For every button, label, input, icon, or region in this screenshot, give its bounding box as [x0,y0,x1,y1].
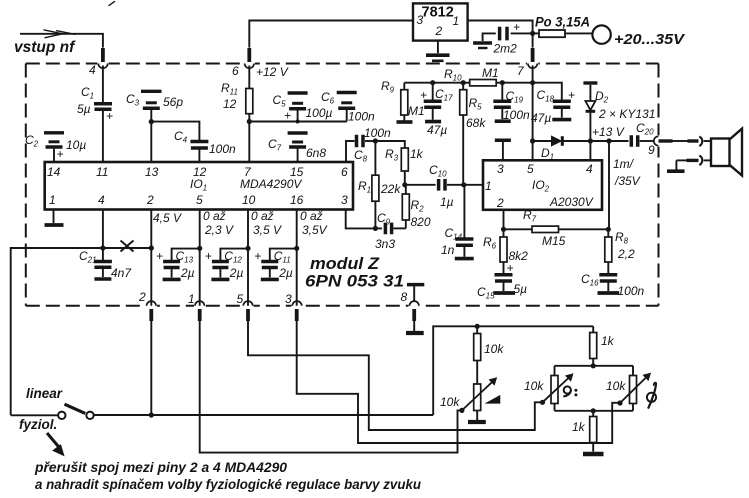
node D1 left [530,138,535,143]
label C14 1n [441,226,463,257]
label C21 4n7 [79,249,132,280]
resistor R8 [605,229,612,273]
node R11 bottom [247,119,252,124]
speaker lead thick segments [659,139,699,142]
svg-text:5: 5 [237,292,244,306]
potentiometer treble 10k [620,373,650,403]
voltage regulator 7812 box [413,3,468,40]
wire IC1 pin3 to C9 row [346,210,382,229]
module pin 3 bump [291,301,302,309]
module pin 5 bump [242,301,253,308]
svg-text:1k: 1k [601,334,615,348]
svg-text:4: 4 [586,162,593,176]
svg-text:22k: 22k [380,182,401,196]
svg-text:5µ: 5µ [77,102,91,116]
svg-text:R11: R11 [221,81,238,97]
svg-text:100n: 100n [348,110,375,124]
speaker wires to jacks [704,141,711,160]
fuse Po 3,15A [533,30,593,37]
capacitor C9 [385,223,405,235]
jack ground [667,160,685,171]
resistor R9 [401,83,408,121]
svg-text:C2: C2 [25,133,39,149]
C17 ground [425,120,441,124]
capacitor C18 [553,88,575,118]
svg-text:10k: 10k [484,342,504,356]
svg-text:+: + [507,261,514,275]
switch contact right [86,412,93,419]
wire IC2 pin4 stub [589,141,591,160]
volume pot ground [468,411,486,423]
capacitor C5 [284,93,308,123]
svg-text:3: 3 [497,162,504,176]
svg-text:+13 V: +13 V [592,125,625,139]
terminal circle +20..35V [592,25,610,43]
svg-text:13: 13 [145,165,159,179]
node C8 R1 junction [373,138,378,143]
svg-text:R8: R8 [615,230,629,246]
label R1 22k [358,179,401,196]
svg-text:5µ: 5µ [514,282,528,296]
node R5 C14 junction [461,182,466,187]
svg-text:9: 9 [648,143,655,157]
label C15 5u [477,282,527,301]
svg-text:C8: C8 [354,148,368,164]
svg-text:D1: D1 [541,146,554,162]
resistor R5 [460,83,467,185]
svg-text:R1: R1 [358,179,371,195]
svg-text:C6: C6 [321,90,335,106]
svg-text:2 × KY131: 2 × KY131 [598,107,655,121]
label C13 2u [176,249,195,280]
pin 7 thick mark [531,48,535,62]
svg-text:R9: R9 [381,79,395,95]
7812 ground [426,41,450,61]
svg-text:C12: C12 [224,249,242,265]
svg-text:100n: 100n [364,126,391,140]
node C13 tap [197,246,202,251]
jack plug top [699,137,702,146]
wire IC1 pin10 column [247,210,249,306]
resistor R10 horizontal [470,80,497,86]
label R7 M15 [523,208,566,248]
svg-text:10k: 10k [440,395,460,409]
svg-text:68k: 68k [466,116,486,130]
capacitor C4 [190,142,208,163]
wire output node to C20 [590,140,628,142]
svg-text:+: + [205,249,212,263]
svg-text:C21: C21 [79,249,97,265]
svg-text:C3: C3 [126,92,140,108]
svg-text:3: 3 [285,292,292,306]
label 1m/35V [613,157,641,188]
speaker horn [730,129,743,176]
node 1m tap [606,138,611,143]
switch contact left [58,412,65,419]
svg-text:C15: C15 [477,285,495,301]
capacitor C17 [420,83,442,120]
pin 6 thick mark [247,48,251,62]
capacitor C1 [94,66,113,163]
svg-text:5: 5 [527,162,534,176]
svg-text:1: 1 [49,193,56,207]
node supply junction [530,31,535,36]
C19 ground [495,119,511,123]
volume triangle mark [487,396,500,403]
resistor R11 [246,66,253,122]
wire C3 to C4 [151,122,199,140]
pin 8 thick mark [412,309,416,321]
svg-text:3,5V: 3,5V [302,223,328,237]
wire C8 node to R3 [375,141,404,148]
svg-text:2,3 V: 2,3 V [204,223,234,237]
svg-text:C14: C14 [445,226,463,242]
C18 ground [552,118,571,122]
label C1 5u [77,85,94,116]
label C3 56p [126,92,183,109]
label 0 az 2,3V pin5 [203,209,234,237]
label 0 az 3,5V pin16 [300,209,328,237]
capacitor C12 [205,249,248,278]
svg-text:/35V: /35V [614,174,641,188]
wire IC2 pin2 down [503,210,505,230]
label R9 M1 [381,79,425,118]
svg-text:56p: 56p [163,95,183,109]
wire R7 to R8 node [559,228,609,230]
svg-text:100n: 100n [618,284,645,298]
module pin 9 bump [654,135,661,146]
label R8 2,2 [615,230,635,261]
speaker box [711,139,730,167]
svg-text:820: 820 [411,215,431,229]
svg-text:4: 4 [98,193,105,207]
node C19 top [500,80,505,85]
svg-text:modul Z: modul Z [310,255,380,273]
label R6 8k2 [483,235,528,263]
capacitor C20 [631,135,654,147]
wire IC1 pin5 column [199,210,201,306]
resistor 10k fixed [474,326,481,360]
svg-text:C19: C19 [506,89,524,105]
svg-text:1m/: 1m/ [613,157,635,171]
svg-text:2: 2 [138,290,146,304]
pin 2 thick mark [149,309,153,321]
module pin 4 bump [97,61,108,68]
label C4 100n [174,129,236,156]
svg-text:D2: D2 [595,89,609,105]
C12 ground [211,278,229,282]
svg-text:6PN 053 31: 6PN 053 31 [305,273,404,291]
svg-text:C13: C13 [176,249,194,265]
svg-text:R6: R6 [483,235,497,251]
scan artifact mark [109,1,116,6]
jack plug bottom [699,156,702,165]
capacitor C7 [288,133,308,162]
resistor R6 [500,229,507,273]
resistor R1 [372,141,379,228]
svg-text:MDA4290V: MDA4290V [240,177,302,191]
treble clef symbol [647,382,656,408]
node R10 left R5 top [461,80,466,85]
capacitor 2m2 [483,20,533,41]
input arrowhead [44,30,76,38]
module pin 7 bump [527,61,538,68]
node loop top [591,363,596,368]
node bass wiper [540,400,545,405]
module pin 1 bump [194,301,205,309]
node volume wiper [459,408,464,413]
svg-text:C1: C1 [81,85,94,101]
node rail pin7 [530,80,535,85]
capacitor C10 [439,179,483,191]
svg-text:0 až: 0 až [203,209,226,223]
wire input vstup nf [20,34,103,48]
label C8 100n [354,126,391,164]
svg-text:7: 7 [517,64,525,78]
op-amp IC1 MDA4290V box [45,162,353,210]
bass clef symbol [563,386,577,396]
svg-text:4,5 V: 4,5 V [153,211,182,225]
node pin2 break [149,245,154,250]
svg-text:3: 3 [417,13,424,27]
label R3 1k [385,147,424,163]
IC1 pin1 ground [45,210,64,226]
svg-text:47µ: 47µ [427,123,447,137]
svg-text:+: + [284,109,291,123]
svg-text:100n: 100n [503,108,530,122]
wire IC1 pin16 column [296,210,298,306]
svg-text:2: 2 [496,196,504,210]
svg-text:2,2: 2,2 [617,247,635,261]
svg-text:M1: M1 [408,104,425,118]
svg-text:1k: 1k [410,147,424,161]
C11 ground [261,278,279,282]
node pin2 R6 R7 [501,227,506,232]
tone loop wires [555,366,634,411]
svg-text:5: 5 [196,193,203,207]
svg-text:3,5 V: 3,5 V [253,223,282,237]
C15 ground [493,291,515,295]
label C12 2u [224,249,243,280]
svg-text:11: 11 [96,165,108,179]
svg-text:A2030V: A2030V [549,195,594,209]
svg-text:1µ: 1µ [440,195,454,209]
diode D2 [583,83,597,141]
bar terminal pin8 [407,285,424,302]
node loop bottom [591,408,596,413]
wire pin2 to switch row [150,321,152,415]
svg-text:linear: linear [26,386,63,401]
C13 ground [163,278,181,282]
wire 7812 output to module pin 6 [249,21,413,48]
svg-text:2m2: 2m2 [493,42,518,56]
module pin 8 bump [409,301,420,309]
svg-text:3: 3 [341,193,348,207]
label C18 47u [531,88,555,125]
svg-text:IO2: IO2 [532,178,550,194]
R9 ground [397,120,413,124]
module pin 6 bump [244,61,255,68]
diode D1 [533,136,591,146]
label C10 1u [429,163,454,209]
svg-text:R3: R3 [385,147,399,163]
svg-text:R2: R2 [411,198,425,214]
potentiometer bass 10k [543,374,573,404]
capacitor C13 [156,249,200,278]
svg-text:+: + [420,88,427,102]
svg-text:R5: R5 [469,96,483,112]
switch lever [65,404,86,413]
svg-text:přerušit spoj mezi piny 2 a 4: přerušit spoj mezi piny 2 a 4 MDA4290 [34,460,287,475]
svg-text:1: 1 [453,14,460,28]
wire module pin7 column [532,66,534,161]
capacitor C15 [495,261,514,291]
svg-text:0 až: 0 až [300,209,323,223]
svg-text:10µ: 10µ [66,138,86,152]
svg-text:4n7: 4n7 [111,266,132,280]
wire IC1 pin4 column [102,210,104,249]
svg-text:100n: 100n [209,142,236,156]
label C16 100n [581,272,645,298]
module pin 2 bump [146,301,157,308]
svg-text:R10: R10 [444,67,462,83]
wire riser switch row to loudness rail [433,326,593,415]
label R11 12 [221,81,238,111]
node output pin4 [588,138,593,143]
svg-text:2µ: 2µ [229,266,244,280]
svg-text:6: 6 [232,64,239,78]
wire node to left edge down [11,248,103,415]
label C9 3n3 [375,211,395,251]
wire 1m feedback column [607,141,610,229]
svg-text:+: + [57,147,64,161]
C16 ground [598,291,620,295]
label C6 100n [321,90,375,124]
wire IC1 pin2 column [150,210,152,306]
svg-text:fyziol.: fyziol. [19,417,57,432]
svg-text:12: 12 [223,97,237,111]
svg-text:14: 14 [47,165,61,179]
tone network ground [583,452,604,456]
svg-text:6n8: 6n8 [306,146,326,160]
svg-text:C5: C5 [273,93,287,109]
svg-text:+12 V: +12 V [256,65,289,79]
svg-text:10k: 10k [524,379,544,393]
resistor R2 [402,185,409,229]
wire decoupling rail y121.5 [249,121,346,123]
node C3-C4 junction [149,119,154,124]
capacitor C8 [346,135,375,162]
svg-text:1: 1 [188,292,195,306]
svg-text:2µ: 2µ [180,266,195,280]
label R5 68k [466,96,486,130]
2m2 ground [473,43,492,48]
node pin4 break [100,245,105,250]
pin 3 thick mark [295,309,299,321]
capacitor C11 [254,249,297,278]
svg-text:100µ: 100µ [306,106,333,120]
node treble wiper [617,400,622,405]
wire supply rail y82.7 [404,83,562,100]
label R2 820 [411,198,431,229]
pin 5 thick mark [246,309,250,321]
wire 7812 input to supply node [468,21,533,48]
svg-text:C20: C20 [636,121,654,137]
IC1 pin labels bottom row [49,193,348,207]
svg-text:C11: C11 [274,249,291,265]
pin 4 thick mark [101,48,105,62]
resistor 1k lower [590,411,597,452]
wire R11 node to IC1 pin7 [248,122,250,163]
svg-text:vstup nf: vstup nf [14,39,76,56]
svg-text:+: + [568,88,575,102]
break cross X [121,241,134,252]
switch wire from pin2 node [94,414,433,416]
capacitor C3 [141,91,162,162]
svg-text:C17: C17 [435,87,453,103]
label C7 6n8 [268,137,326,160]
svg-text:1n: 1n [441,243,455,257]
label 0 az 3,5V pin10 [251,209,282,237]
wire pin5 column to bass wiper [248,321,543,430]
resistor R7 horizontal [532,226,559,232]
speaker lead bottom [676,159,698,161]
IC1 pin labels top row [47,165,348,179]
potentiometer volume 10k [462,361,497,411]
svg-text:7812: 7812 [422,5,454,21]
svg-text:0 až: 0 až [251,209,274,223]
node C5 bottom [296,120,300,124]
svg-text:M1: M1 [482,66,499,80]
capacitor C16 [599,275,617,291]
capacitor C14 [455,185,473,257]
svg-text:C7: C7 [268,137,282,153]
wire R3R2 node to C10 [405,184,436,186]
svg-text:2: 2 [435,24,443,38]
node R2R3C10 [402,182,407,187]
C14 ground [455,257,474,261]
node 10k top [475,324,480,329]
label C2 10u [25,133,86,152]
label C19 100n [503,89,530,122]
pin8 ground [406,321,424,333]
pin 1 thick mark [198,309,202,321]
node switch pin2 [149,412,154,417]
svg-text:a nahradit spínačem volby fyzi: a nahradit spínačem volby fyziologické r… [35,477,422,492]
svg-text:C16: C16 [581,272,599,288]
svg-text:C4: C4 [174,129,188,145]
capacitor C2 [44,133,64,162]
svg-text:C10: C10 [429,163,447,179]
node C11 tap [294,246,299,251]
capacitor C19 [493,83,511,120]
svg-text:+: + [513,20,520,34]
svg-text:6: 6 [341,165,348,179]
node R1 bottom [373,226,378,231]
svg-text:C9: C9 [377,211,391,227]
svg-text:47µ: 47µ [531,111,551,125]
node C12 tap [245,246,250,251]
svg-text:2: 2 [146,193,154,207]
wire left to switch [11,414,58,416]
node C17 top [430,80,435,85]
svg-text:3n3: 3n3 [375,237,395,251]
svg-text:IO1: IO1 [190,177,207,193]
svg-text:+: + [156,249,163,263]
node R7 R8 [606,227,611,232]
svg-text:+: + [106,109,113,123]
svg-text:2µ: 2µ [278,266,293,280]
